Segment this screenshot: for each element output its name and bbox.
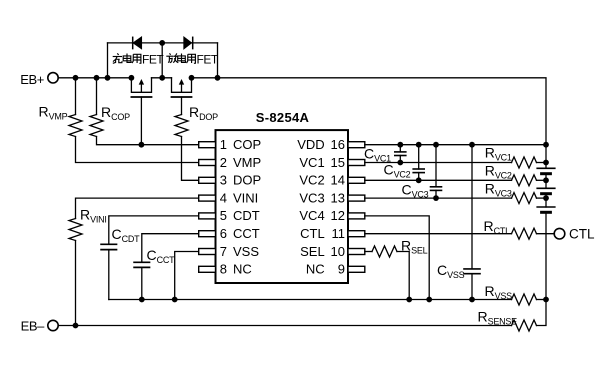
wire RVC1 to rail xyxy=(537,162,547,164)
resistor RCOP xyxy=(90,78,199,145)
svg-text:NC: NC xyxy=(233,262,252,277)
svg-text:COP: COP xyxy=(233,137,261,152)
junction main line FET2 source xyxy=(189,75,195,81)
junction VSS CCCT xyxy=(139,297,145,303)
diode D2 (discharge FET body diode) xyxy=(184,37,193,48)
svg-text:13: 13 xyxy=(331,190,345,205)
resistor RVMP xyxy=(69,78,199,163)
junction VSS VC4 xyxy=(426,297,432,303)
capacitor CVC1 xyxy=(395,145,406,163)
junction COP line gate1 xyxy=(139,142,145,148)
wire RCTL to CTL terminal xyxy=(537,233,555,235)
wire RVC3 to rail xyxy=(537,197,547,199)
svg-text:VSS: VSS xyxy=(233,244,259,259)
svg-text:VDD: VDD xyxy=(297,137,324,152)
junction diode line mid xyxy=(159,40,165,46)
svg-text:2: 2 xyxy=(220,155,227,170)
terminal EB- xyxy=(48,320,58,330)
wire diode box middle vertical xyxy=(161,43,163,78)
svg-text:EB+: EB+ xyxy=(20,72,44,87)
resistor RVC2 xyxy=(512,175,537,186)
wire VC1 pin15 line xyxy=(365,162,512,164)
wire VSS pin7 drop xyxy=(175,252,199,300)
svg-text:4: 4 xyxy=(220,190,227,205)
wire VC4 pin12 line xyxy=(365,216,429,300)
transistor Q1 charge FET xyxy=(131,78,151,145)
wire main positive line left segment xyxy=(58,77,131,79)
junction VDD CVSS xyxy=(469,142,475,148)
junction VC1 rail xyxy=(543,160,549,166)
glyph yong 2 xyxy=(187,54,196,63)
wire VDD pin16 line xyxy=(365,144,546,146)
wire EB- sense line xyxy=(58,325,511,327)
svg-text:DOP: DOP xyxy=(233,173,261,188)
wire RVC2 to rail xyxy=(537,179,547,181)
wire VSS net line xyxy=(109,299,512,301)
junction main line FET1 drain xyxy=(129,75,135,81)
wire VC2 pin14 line xyxy=(365,179,512,181)
svg-text:12: 12 xyxy=(331,208,345,223)
glyph fang xyxy=(166,53,178,62)
junction main line diode right xyxy=(215,75,221,81)
junction VDD CVC3 xyxy=(433,142,439,148)
glyph chong 1 xyxy=(113,53,122,63)
svg-text:SEL: SEL xyxy=(300,244,325,259)
svg-text:1: 1 xyxy=(220,137,227,152)
junction VDD rail xyxy=(543,142,549,148)
svg-text:5: 5 xyxy=(220,208,227,223)
svg-text:EB–: EB– xyxy=(21,319,46,334)
capacitor CVC2 xyxy=(413,145,424,181)
junction VSS RSEL xyxy=(406,297,412,303)
resistor RVSS xyxy=(512,294,537,305)
junction VSS CVSS xyxy=(469,297,475,303)
svg-text:7: 7 xyxy=(220,244,227,259)
wire diode box right vertical xyxy=(217,43,219,78)
diode D1 (charge FET body diode) xyxy=(133,37,142,48)
svg-text:3: 3 xyxy=(220,173,227,188)
svg-text:6: 6 xyxy=(220,226,227,241)
junction VC2 rail xyxy=(543,177,549,183)
svg-text:11: 11 xyxy=(332,226,346,241)
junction main line diode mid xyxy=(159,75,165,81)
junction VC1 CVC1 xyxy=(397,160,403,166)
wire main positive line right segment to rail xyxy=(192,78,547,145)
junction main line RCOP xyxy=(94,75,100,81)
svg-text:FET: FET xyxy=(142,52,164,66)
resistor RCTL xyxy=(512,228,537,239)
svg-text:VINI: VINI xyxy=(233,190,258,205)
IC left pin stubs 1-8 xyxy=(199,142,216,273)
svg-text:VC4: VC4 xyxy=(299,208,324,223)
junction VC3 CVC3 xyxy=(433,195,439,201)
svg-text:FET: FET xyxy=(197,52,219,66)
junction VDD CVC2 xyxy=(416,142,422,148)
label discharge FET (Chinese glyphs drawn as strokes) xyxy=(166,53,195,63)
battery cell B2 xyxy=(537,188,555,193)
resistor RVINI xyxy=(69,198,199,325)
svg-text:VMP: VMP xyxy=(233,155,261,170)
svg-text:CCT: CCT xyxy=(233,226,260,241)
junction VSS rail xyxy=(543,297,549,303)
svg-text:9: 9 xyxy=(338,262,345,277)
resistor RVC1 xyxy=(512,157,537,168)
svg-text:10: 10 xyxy=(331,244,345,259)
battery cell B3 xyxy=(537,207,555,212)
junction VC2 CVC2 xyxy=(416,177,422,183)
glyph dian 1 xyxy=(123,54,131,63)
wire CTL pin11 line xyxy=(365,233,512,235)
wire VC3 pin13 line xyxy=(365,197,512,199)
svg-text:15: 15 xyxy=(331,155,345,170)
glyph dian 2 xyxy=(178,54,186,63)
resistor RSEL xyxy=(372,246,397,257)
resistor RDOP xyxy=(175,115,199,181)
svg-text:NC: NC xyxy=(306,262,325,277)
terminal CTL xyxy=(554,228,565,239)
wire RSEL to VSS xyxy=(397,252,409,300)
IC right pin stubs 16-9 xyxy=(348,142,365,273)
glyph yong 1 xyxy=(132,54,141,63)
wire battery rail xyxy=(545,145,547,300)
svg-text:VC1: VC1 xyxy=(299,155,324,170)
resistor RSENSE xyxy=(512,320,537,331)
junction VDD CVC1 xyxy=(397,142,403,148)
svg-text:CTL: CTL xyxy=(300,226,325,241)
capacitor CVC3 xyxy=(431,145,442,198)
terminal EB+ xyxy=(48,73,58,83)
svg-text:16: 16 xyxy=(331,137,345,152)
junction VSS pin7 xyxy=(172,297,178,303)
wire RVSS to rail xyxy=(537,299,547,301)
junction main line diode left xyxy=(105,75,111,81)
svg-text:14: 14 xyxy=(331,173,345,188)
junction VC3 rail xyxy=(543,195,549,201)
label charge FET (Chinese glyphs drawn as strokes) xyxy=(113,53,141,63)
resistor RVC3 xyxy=(512,193,537,204)
svg-text:VC2: VC2 xyxy=(299,173,324,188)
transistor Q2 discharge FET xyxy=(172,78,192,115)
capacitor CCDT xyxy=(101,216,199,300)
svg-text:S-8254A: S-8254A xyxy=(256,110,310,125)
wire RSENSE to rail xyxy=(537,300,547,326)
wire diode box left vertical xyxy=(107,43,109,78)
svg-text:VC3: VC3 xyxy=(299,190,324,205)
junction main line RVMP xyxy=(73,75,79,81)
svg-text:8: 8 xyxy=(220,262,227,277)
capacitor CVSS xyxy=(464,145,480,300)
wire SEL pin10 line xyxy=(365,251,372,253)
wire main positive line middle segment xyxy=(152,77,172,79)
svg-text:CTL: CTL xyxy=(569,226,595,241)
wire diode bypass top line xyxy=(108,42,218,44)
capacitor CCCT xyxy=(134,234,199,300)
junction EB- RVINI xyxy=(73,323,79,329)
svg-text:CDT: CDT xyxy=(233,208,260,223)
battery cell B1 xyxy=(537,168,555,173)
IC U1 S-8254A body xyxy=(216,130,349,283)
